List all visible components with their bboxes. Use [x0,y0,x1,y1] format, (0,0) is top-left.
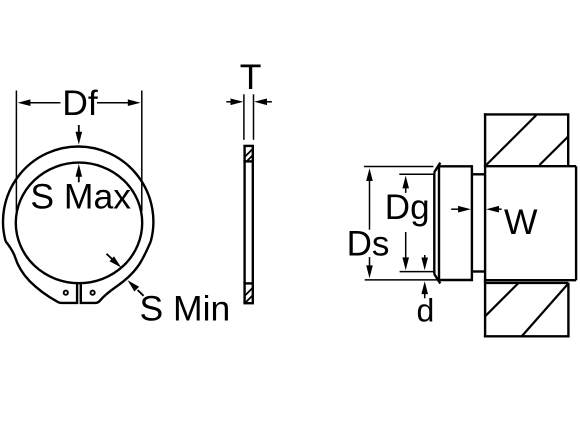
hub top hatch 1 [486,115,536,165]
shaft chamfer tangent line [438,166,440,280]
hub top hatch 2 [540,137,569,165]
svg-text:d: d [417,292,435,328]
shaft bottom edge [440,279,472,281]
shaft chamfer bottom [434,274,440,284]
groove floor top [472,173,485,175]
hub middle right edge [575,166,577,280]
svg-text:Df: Df [62,83,98,123]
shaft right face / groove left wall [471,165,473,281]
bottom block hatch 2 [245,295,253,303]
hub bottom block right edge [567,283,569,336]
T dimension arrow left (points right) [226,101,232,103]
groove floor bottom [472,270,485,272]
ring outer circle arc [3,146,153,241]
Dg dimension line upper segment with up arrow [405,185,407,193]
side strip top edge [243,145,254,147]
side strip bottom edge [243,302,254,304]
right lug [81,241,151,303]
T extension line right [253,94,255,140]
hub middle bottom edge [484,279,576,281]
Dg extension line top [399,173,434,175]
hub bottom edge [484,335,570,337]
shaft top edge [440,165,472,167]
S Min arrow A (points down-right at inner edge) [107,254,113,260]
Df extension line left [15,91,17,212]
svg-text:T: T [240,57,262,97]
W arrow left (points right) [451,208,459,210]
hub top edge [484,113,570,115]
lug hole right [91,291,95,295]
side strip right edge [252,146,254,303]
Ds extension line bottom [365,279,439,281]
hub left edge [484,113,486,337]
S Max arrow upper (points down at outer circle top) [78,125,80,134]
svg-text:S Max: S Max [30,177,131,217]
left lug [6,241,78,303]
bottom section block top edge [243,282,254,284]
Dg extension line bottom [400,271,435,273]
top block hatch 2 [247,155,253,161]
lug hole left [64,291,68,295]
hub bottom block top edge [484,282,569,284]
Ds extension line top [364,166,434,168]
shaft left end face [433,172,435,274]
svg-text:W: W [504,202,538,242]
ring inner ellipse [16,163,142,284]
d lower arrow (points up) [424,293,426,298]
side strip left edge [243,146,245,303]
S Min arrow B (points up-left at lug outer edge) [138,290,144,296]
hub top block bottom edge / bore contact line [484,165,576,167]
svg-text:Ds: Ds [347,224,390,263]
Ds dimension line lower segment with down arrow [369,257,371,268]
Df extension line right [141,91,143,212]
Df dimension line left segment with arrow [29,102,61,104]
T dimension arrow right (points left) [266,101,272,103]
S Max arrow lower (points up at inner circle top) [78,176,80,182]
top section block bottom edge [243,160,254,162]
shaft chamfer top [434,163,440,173]
hub bottom hatch 2 [522,284,568,337]
hub bottom hatch 1 [486,283,519,316]
hub top block right edge [567,114,569,166]
Dg dimension line lower segment with down arrow [405,232,407,260]
W arrow right (points left) [497,208,502,210]
Df dimension line right segment with arrow [97,102,129,104]
top block hatch 1 [245,149,253,157]
Ds dimension line upper segment with up arrow [369,178,371,230]
T extension line left [243,94,245,140]
d upper arrow (points down) [424,255,426,259]
svg-text:Dg: Dg [385,188,430,227]
svg-text:S Min: S Min [140,288,231,328]
bottom block hatch 1 [245,288,253,296]
